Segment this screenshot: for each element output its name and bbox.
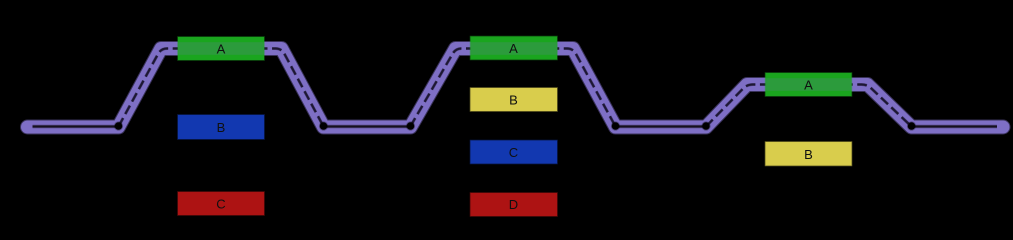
svg-text:D: D: [509, 197, 518, 212]
box B2 (yellow, group 2): [471, 88, 558, 111]
box C2 (blue, group 2): [471, 141, 558, 164]
node n6: [907, 121, 916, 130]
svg-text:B: B: [804, 147, 813, 162]
svg-text:B: B: [509, 93, 518, 108]
svg-text:C: C: [509, 145, 518, 160]
svg-text:B: B: [217, 120, 226, 135]
node n2: [319, 121, 328, 130]
box D2 (red, group 2): [471, 193, 558, 216]
box B1 (blue, group 1): [178, 115, 264, 139]
box C1 (red, group 1): [178, 192, 264, 215]
box B3 (yellow, group 3): [766, 142, 852, 166]
box A1 (green, group 1): [178, 37, 264, 60]
svg-text:A: A: [804, 78, 813, 93]
svg-text:A: A: [509, 41, 518, 56]
node n3: [406, 121, 415, 130]
node n4: [611, 121, 620, 130]
box A2 (green, group 2): [471, 37, 558, 60]
node n5: [701, 121, 710, 130]
svg-text:C: C: [216, 197, 225, 212]
node n1: [114, 121, 123, 130]
box A3 (green, group 3): [766, 73, 852, 96]
svg-text:A: A: [217, 42, 226, 57]
